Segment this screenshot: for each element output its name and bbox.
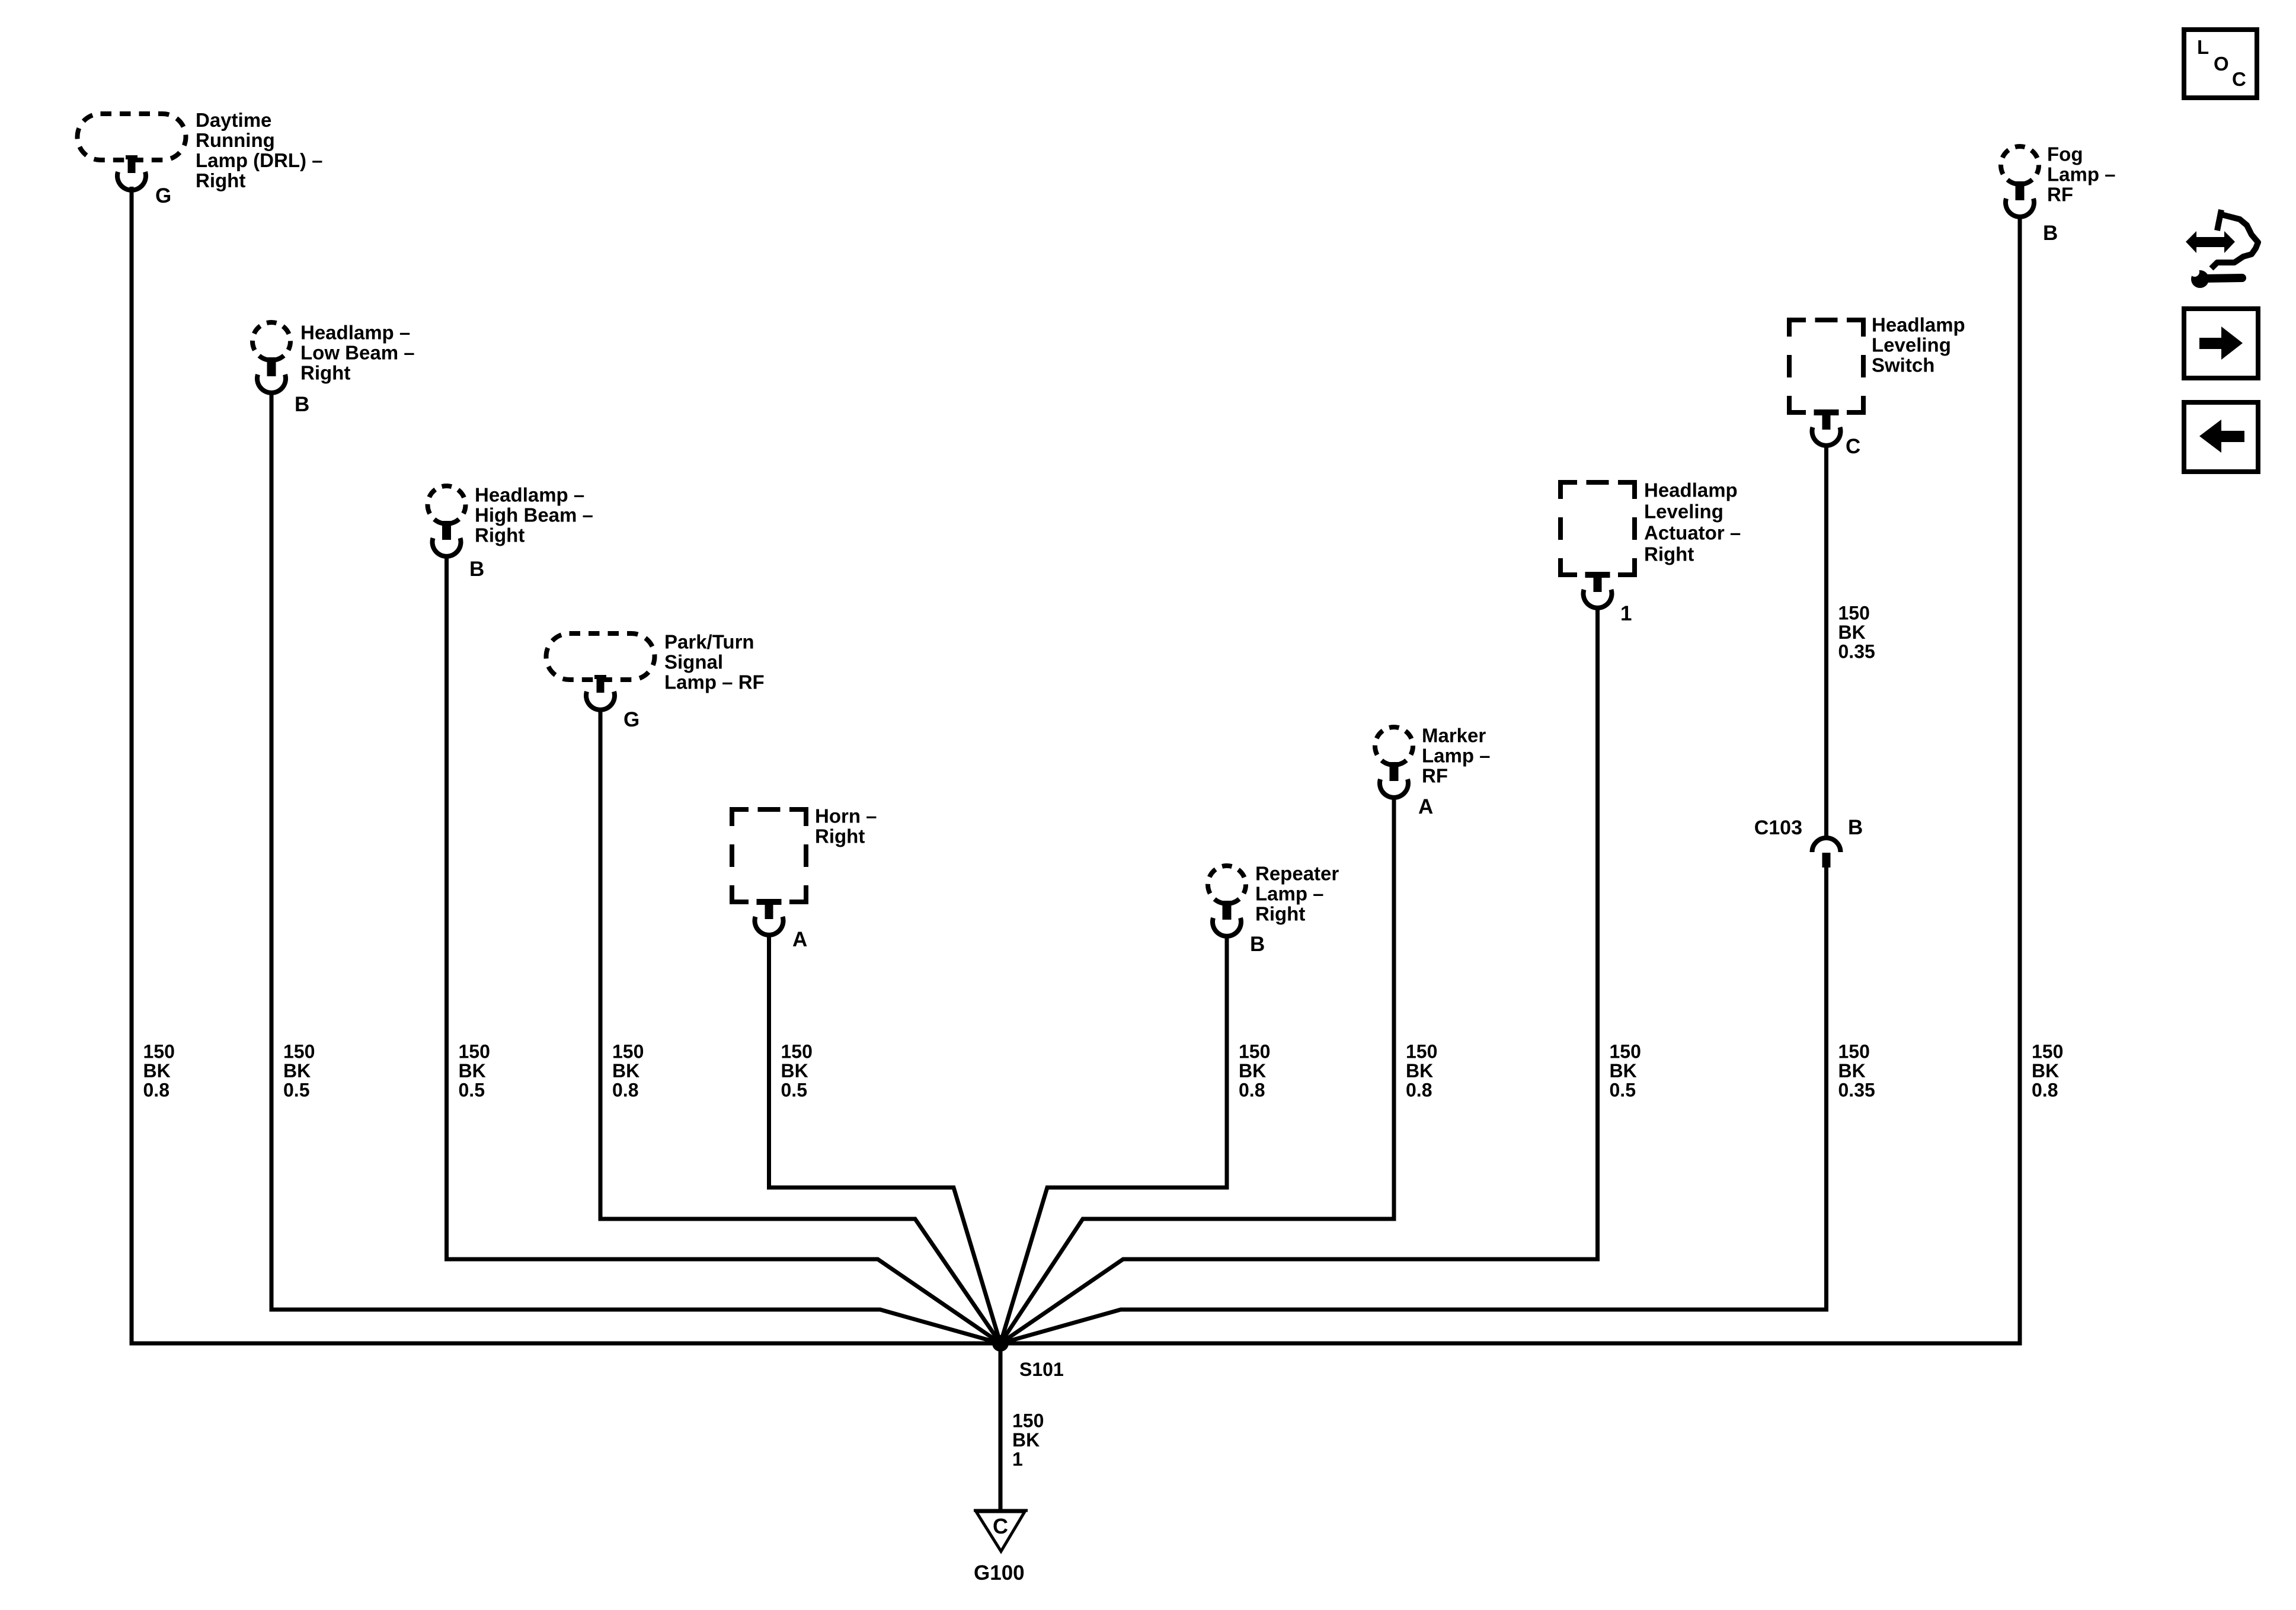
wire Repeater Lamp ground (150 BK 0.8) (1000, 936, 1227, 1343)
svg-text:BK: BK (1838, 622, 1866, 643)
Headlamp Leveling Actuator - Right symbol (dashed box) (1560, 482, 1635, 575)
svg-text:150: 150 (459, 1041, 490, 1062)
svg-text:Daytime: Daytime (196, 109, 271, 131)
svg-text:C: C (2232, 68, 2246, 90)
svg-text:Right: Right (1644, 543, 1694, 565)
svg-text:Marker: Marker (1422, 725, 1486, 747)
svg-text:BK: BK (1838, 1060, 1866, 1081)
svg-text:0.5: 0.5 (283, 1080, 309, 1101)
svg-text:Actuator –: Actuator – (1644, 522, 1741, 544)
svg-text:Right: Right (300, 362, 350, 384)
svg-text:Right: Right (196, 169, 245, 191)
svg-text:BK: BK (1610, 1060, 1637, 1081)
Horn - Right connector arc (755, 917, 784, 935)
Daytime Running Lamp (DRL) - Right pin (126, 155, 137, 159)
svg-text:150: 150 (2032, 1041, 2063, 1062)
svg-text:G: G (155, 184, 171, 207)
svg-text:Right: Right (475, 524, 525, 546)
svg-text:High Beam –: High Beam – (475, 504, 593, 526)
Headlamp - High Beam - Right lamp symbol (428, 486, 466, 524)
svg-text:G: G (623, 708, 639, 731)
svg-text:A: A (792, 928, 807, 951)
svg-text:L: L (2197, 36, 2209, 58)
svg-text:0.35: 0.35 (1838, 641, 1875, 662)
svg-text:BK: BK (1406, 1060, 1433, 1081)
svg-text:BK: BK (143, 1060, 171, 1081)
Headlamp Leveling Actuator - Right pin (1585, 572, 1610, 578)
svg-text:RF: RF (2047, 184, 2073, 206)
svg-text:150: 150 (1012, 1410, 1044, 1432)
svg-text:Park/Turn: Park/Turn (664, 631, 754, 653)
Marker Lamp - RF connector arc (1380, 779, 1408, 798)
svg-text:Signal: Signal (664, 651, 723, 673)
svg-text:BK: BK (612, 1060, 639, 1081)
wire Headlamp Low Beam ground (150 BK 0.5) (271, 393, 1000, 1343)
svg-text:Lamp –: Lamp – (1422, 745, 1491, 767)
Daytime Running Lamp (DRL) - Right lamp symbol (78, 114, 186, 160)
svg-text:Fog: Fog (2047, 143, 2083, 165)
Repeater Lamp - Right connector arc (1213, 918, 1241, 936)
ground symbol G100 (triangle C) (976, 1512, 1025, 1551)
Headlamp - High Beam - Right connector arc (433, 538, 461, 556)
svg-text:Switch: Switch (1872, 354, 1934, 376)
svg-text:O: O (2214, 53, 2229, 75)
svg-text:0.5: 0.5 (1610, 1080, 1636, 1101)
Headlamp - Low Beam - Right connector arc (257, 375, 286, 393)
svg-text:RF: RF (1422, 765, 1448, 787)
svg-text:Right: Right (815, 825, 865, 847)
wire ground lead S101 to G100 (150 BK 1) (999, 1343, 1003, 1509)
svg-text:BK: BK (2032, 1060, 2059, 1081)
wire Park/Turn Signal ground (150 BK 0.8) (600, 709, 1000, 1343)
svg-text:Repeater: Repeater (1255, 863, 1339, 885)
Headlamp - High Beam - Right pin (440, 521, 453, 525)
Marker Lamp - RF lamp symbol (1375, 727, 1413, 765)
svg-text:150: 150 (1838, 1041, 1870, 1062)
Daytime Running Lamp (DRL) - Right connector arc (117, 172, 146, 190)
svg-text:Low Beam –: Low Beam – (300, 342, 415, 364)
Horn - Right pin (757, 899, 782, 905)
wire Headlamp High Beam ground (150 BK 0.5) (447, 556, 1001, 1343)
svg-text:Headlamp –: Headlamp – (475, 484, 584, 506)
Repeater Lamp - Right pin (1220, 901, 1233, 905)
wire Marker Lamp ground (150 BK 0.8) (1000, 798, 1394, 1343)
svg-text:Lamp –: Lamp – (2047, 164, 2116, 185)
svg-text:0.8: 0.8 (612, 1080, 638, 1101)
svg-text:150: 150 (781, 1041, 813, 1062)
Headlamp Leveling Switch pin (1814, 409, 1839, 415)
back arrow box (2184, 402, 2258, 472)
svg-text:BK: BK (283, 1060, 311, 1081)
svg-text:0.8: 0.8 (1239, 1080, 1265, 1101)
svg-text:Horn –: Horn – (815, 805, 877, 827)
svg-text:Running: Running (196, 129, 275, 151)
Fog Lamp - RF lamp symbol (2001, 146, 2039, 184)
svg-text:Headlamp: Headlamp (1644, 479, 1738, 501)
svg-text:150: 150 (1239, 1041, 1270, 1062)
Headlamp Leveling Switch connector arc (1812, 427, 1841, 446)
svg-text:Headlamp –: Headlamp – (300, 322, 410, 344)
svg-text:G100: G100 (974, 1561, 1025, 1585)
wire Leveling Switch ground upper (150 BK 0.35) (1824, 446, 1828, 839)
svg-text:1: 1 (1620, 602, 1632, 625)
svg-text:C103: C103 (1754, 817, 1802, 839)
Park/Turn Signal Lamp - RF connector arc (586, 692, 615, 710)
Fog Lamp - RF pin (2013, 181, 2026, 185)
svg-text:150: 150 (143, 1041, 175, 1062)
svg-text:0.8: 0.8 (1406, 1080, 1432, 1101)
svg-text:B: B (1848, 816, 1863, 839)
forward arrow box (2184, 309, 2258, 378)
splice S101 junction dot (992, 1335, 1009, 1352)
svg-text:BK: BK (781, 1060, 808, 1081)
svg-text:BK: BK (1239, 1060, 1266, 1081)
Marker Lamp - RF pin (1387, 762, 1400, 766)
wire Leveling Actuator ground (150 BK 0.5) (1000, 608, 1598, 1343)
svg-text:0.8: 0.8 (2032, 1080, 2058, 1101)
svg-text:B: B (2043, 222, 2058, 245)
svg-text:A: A (1418, 795, 1433, 818)
Headlamp - Low Beam - Right pin (265, 357, 278, 361)
Park/Turn Signal Lamp - RF pin (594, 675, 606, 679)
svg-text:Lamp (DRL) –: Lamp (DRL) – (196, 149, 323, 171)
svg-text:Lamp –: Lamp – (1255, 883, 1324, 905)
svg-text:Lamp – RF: Lamp – RF (664, 671, 765, 693)
Repeater Lamp - Right lamp symbol (1208, 866, 1246, 904)
svg-text:0.5: 0.5 (781, 1080, 807, 1101)
svg-text:B: B (469, 558, 484, 581)
svg-text:0.5: 0.5 (459, 1080, 485, 1101)
diagnostic / harness icon (2186, 210, 2258, 288)
svg-text:C: C (993, 1514, 1008, 1538)
Headlamp Leveling Actuator - Right connector arc (1584, 590, 1612, 608)
svg-text:Leveling: Leveling (1644, 501, 1723, 523)
svg-text:150: 150 (1610, 1041, 1641, 1062)
connector C103 (1812, 838, 1841, 852)
svg-text:Leveling: Leveling (1872, 334, 1951, 356)
svg-text:150: 150 (612, 1041, 644, 1062)
svg-text:0.35: 0.35 (1838, 1080, 1875, 1101)
svg-text:1: 1 (1012, 1449, 1023, 1470)
svg-text:Right: Right (1255, 903, 1305, 925)
Fog Lamp - RF connector arc (2006, 199, 2034, 217)
svg-text:150: 150 (1838, 603, 1870, 624)
LOC reference box (2184, 30, 2257, 98)
svg-text:0.8: 0.8 (143, 1080, 170, 1101)
svg-text:Headlamp: Headlamp (1872, 314, 1965, 336)
svg-text:B: B (295, 393, 309, 416)
svg-text:S101: S101 (1019, 1359, 1064, 1380)
Headlamp Leveling Switch symbol (dashed box) (1789, 320, 1863, 412)
svg-text:B: B (1250, 933, 1265, 956)
Headlamp - Low Beam - Right lamp symbol (252, 322, 290, 360)
svg-text:150: 150 (283, 1041, 315, 1062)
wire Horn ground (150 BK 0.5) (769, 935, 1001, 1343)
svg-text:BK: BK (459, 1060, 486, 1081)
svg-text:150: 150 (1406, 1041, 1437, 1062)
svg-text:BK: BK (1012, 1429, 1040, 1451)
svg-text:C: C (1846, 435, 1860, 458)
Horn - Right symbol (dashed box) (732, 809, 806, 902)
Park/Turn Signal Lamp - RF lamp symbol (546, 633, 655, 680)
wire DRL ground (150 BK 0.8) / ground bus (132, 187, 2020, 1343)
wire Leveling Switch ground lower via C103 (1000, 868, 1827, 1343)
